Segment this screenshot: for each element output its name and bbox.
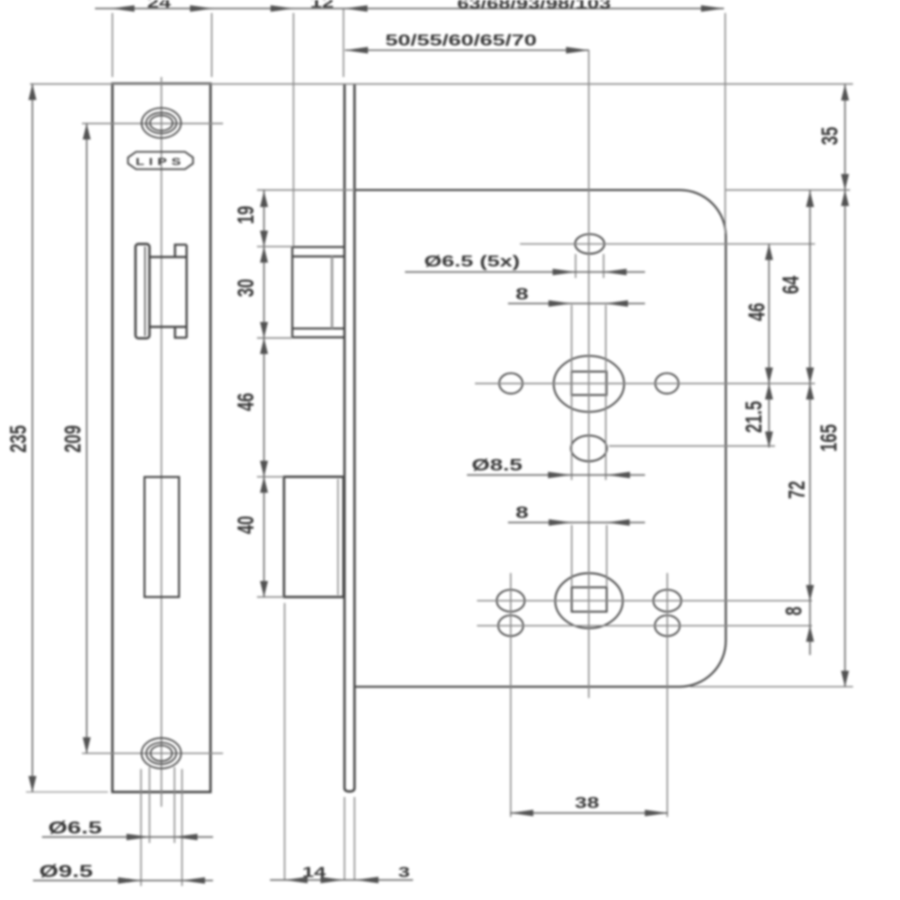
- label 8 upper: [515, 286, 528, 304]
- label dia9.5: [39, 861, 93, 881]
- upper follower: [554, 356, 624, 412]
- extension strip left top: [343, 9, 345, 77]
- deadbolt cutout front view: [145, 477, 180, 597]
- long top extension line y84: [30, 83, 853, 85]
- vertical centerline left hole: [510, 573, 512, 817]
- dia9.5 extension left: [140, 769, 142, 886]
- label dia6.5 bottom: [48, 818, 102, 838]
- label 19: [234, 206, 259, 224]
- svg-text:235: 235: [6, 425, 31, 453]
- deadbolt side view: [284, 477, 344, 597]
- dim line 235: [31, 84, 33, 792]
- label 235: [6, 425, 31, 453]
- label 8 right: [782, 606, 807, 615]
- extension 8 upper right: [605, 305, 607, 480]
- label 21.5: [742, 401, 767, 433]
- dim line dia6.5 5x: [405, 271, 645, 273]
- upper side holes: [499, 373, 522, 393]
- tick y476.8: [257, 476, 284, 478]
- cylinder hole: [571, 436, 607, 462]
- svg-text:209: 209: [61, 425, 86, 453]
- svg-text:165: 165: [817, 424, 842, 452]
- svg-text:Ø8.5: Ø8.5: [472, 457, 523, 475]
- label 72: [785, 481, 810, 499]
- dim line 8 lower: [508, 522, 645, 524]
- dim column 46 21.5: [768, 244, 770, 448]
- lower four holes: [497, 590, 525, 612]
- svg-text:35: 35: [818, 127, 843, 145]
- bottom screw hole centerline: [82, 752, 223, 754]
- case bottom extension right: [690, 686, 853, 688]
- lock vertical centerline: [588, 50, 590, 698]
- label 8 lower: [515, 504, 528, 522]
- svg-text:8: 8: [515, 504, 528, 522]
- bottom screw hole: [142, 738, 182, 768]
- label 64: [779, 275, 804, 294]
- label 165: [817, 424, 842, 452]
- extension 24 left: [111, 13, 113, 77]
- label dia8.5: [472, 457, 523, 475]
- tick y597: [257, 596, 284, 598]
- svg-text:19: 19: [234, 206, 259, 224]
- faceplate front view outline: [112, 84, 210, 792]
- latch head bar front view: [136, 244, 150, 338]
- label 38: [575, 795, 599, 812]
- tick y246.6: [257, 246, 292, 248]
- label 14: [302, 863, 327, 880]
- dim line dia9.5: [33, 880, 213, 882]
- case top extension left: [257, 189, 355, 191]
- svg-text:63/68/93/98/103: 63/68/93/98/103: [457, 0, 611, 12]
- tick y338: [257, 337, 292, 339]
- svg-text:64: 64: [779, 275, 804, 294]
- extension case right top: [724, 13, 726, 234]
- dim line 14 3: [270, 879, 413, 881]
- cylinder centerline: [609, 445, 775, 447]
- top screw hole centerline: [82, 123, 223, 125]
- dia6.5 extension right: [174, 767, 176, 843]
- vertical centerline right hole: [666, 573, 668, 817]
- LIPS logo: [128, 152, 193, 169]
- extension latch front: [293, 13, 295, 247]
- svg-text:12: 12: [310, 0, 334, 11]
- lower follower: [555, 573, 623, 628]
- label 50/55/60/65/70: [385, 31, 537, 49]
- case top extension right: [726, 189, 850, 191]
- dim line 50-70: [345, 49, 589, 51]
- svg-text:8: 8: [515, 286, 528, 304]
- plate bottom extension left: [26, 791, 108, 793]
- latch cutout body and tabs front view: [150, 245, 187, 338]
- extension 8 lower left: [571, 525, 573, 587]
- dim line 209: [86, 124, 88, 754]
- faceplate side strip: [345, 84, 355, 792]
- follower centerline: [475, 383, 815, 385]
- svg-text:38: 38: [575, 795, 599, 812]
- extension 8 lower right: [606, 525, 608, 587]
- dim line 8 upper: [508, 303, 645, 305]
- extension 8 upper left: [571, 305, 573, 480]
- extension 24 right: [211, 13, 213, 77]
- svg-text:Ø9.5: Ø9.5: [39, 861, 93, 881]
- label 63/68/93/98/103: [457, 0, 611, 12]
- dia6.5 extension left: [149, 767, 151, 843]
- svg-text:40: 40: [234, 516, 259, 534]
- extension top hole dia left: [575, 254, 577, 278]
- svg-text:Ø6.5: Ø6.5: [48, 818, 102, 838]
- svg-text:50/55/60/65/70: 50/55/60/65/70: [385, 31, 537, 49]
- label dia6.5 5x: [424, 252, 520, 270]
- svg-text:3: 3: [398, 863, 410, 880]
- case top hole centerline: [520, 243, 815, 245]
- svg-text:8: 8: [782, 606, 807, 615]
- svg-text:46: 46: [234, 393, 259, 411]
- latch bolt side view: [292, 247, 344, 337]
- label 35: [818, 127, 843, 145]
- deadbolt front extension down: [284, 603, 286, 880]
- svg-text:LIPS: LIPS: [136, 156, 186, 167]
- label 24: [147, 0, 172, 11]
- label 46 left: [234, 393, 259, 411]
- svg-text:14: 14: [302, 863, 327, 880]
- svg-text:72: 72: [785, 481, 810, 499]
- lock case outline: [356, 190, 726, 687]
- label 40: [234, 516, 259, 534]
- dim column 19 30 46 40: [263, 190, 265, 597]
- svg-text:Ø6.5 (5x): Ø6.5 (5x): [424, 252, 520, 270]
- dim line dia6.5 bottom: [42, 836, 213, 838]
- label 46 right: [745, 303, 770, 321]
- top screw hole: [142, 108, 181, 138]
- faceplate vertical centerline: [160, 77, 162, 807]
- label 30: [234, 279, 259, 297]
- dim line 38: [510, 812, 668, 814]
- label 12: [310, 0, 334, 11]
- label 209: [61, 425, 86, 453]
- svg-text:30: 30: [234, 279, 259, 297]
- extension top hole dia right: [603, 254, 605, 278]
- strip extension down right: [354, 797, 356, 880]
- svg-text:21.5: 21.5: [742, 401, 767, 433]
- lower holes centerline: [477, 625, 812, 627]
- dim line dia8.5: [467, 474, 645, 476]
- top dim line 24 12 63-103: [95, 8, 724, 10]
- lower follower centerline: [477, 600, 812, 602]
- dim column 35 165: [844, 84, 846, 687]
- strip extension down left: [344, 797, 346, 880]
- case top hole: [575, 234, 604, 254]
- dim column 64 72 8: [809, 190, 811, 655]
- dia9.5 extension right: [181, 769, 183, 886]
- label 3: [398, 863, 410, 880]
- svg-text:46: 46: [745, 303, 770, 321]
- svg-text:24: 24: [147, 0, 172, 11]
